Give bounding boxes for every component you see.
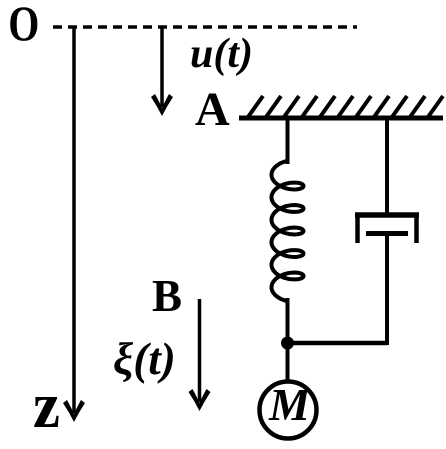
svg-text:z: z bbox=[33, 368, 60, 442]
dashed reference line bbox=[53, 25, 357, 29]
svg-text:u(t): u(t) bbox=[190, 31, 253, 77]
svg-text:M: M bbox=[268, 379, 312, 430]
junction node dot bbox=[281, 337, 294, 350]
damper cylinder left wall bbox=[355, 213, 360, 243]
wire junction to damper bbox=[288, 341, 388, 346]
wire ceiling to spring bbox=[286, 118, 290, 164]
wire ceiling to damper cylinder bbox=[385, 118, 389, 215]
z-axis arrowhead bbox=[63, 400, 85, 422]
svg-text:O: O bbox=[8, 0, 39, 51]
wire B arrow shaft bbox=[198, 299, 202, 402]
wire z-axis shaft bbox=[72, 27, 76, 413]
damper cylinder right wall bbox=[414, 213, 419, 243]
mass M circle bbox=[260, 382, 317, 439]
spring K coil bbox=[272, 161, 304, 301]
B arrowhead bbox=[189, 389, 211, 411]
svg-text:A: A bbox=[195, 83, 230, 136]
wire junction to mass bbox=[286, 343, 290, 383]
wire spring to junction bbox=[286, 298, 290, 343]
svg-text:B: B bbox=[152, 271, 182, 321]
damper cylinder top bbox=[355, 212, 419, 218]
ceiling fixed support line bbox=[239, 116, 443, 121]
wire piston rod to junction wire bbox=[385, 236, 389, 345]
wire u(t) arrow shaft bbox=[160, 27, 164, 107]
damper piston plate bbox=[366, 231, 408, 236]
ceiling hatching bbox=[248, 96, 443, 117]
u(t) arrowhead bbox=[151, 94, 173, 116]
svg-text:ξ(t): ξ(t) bbox=[113, 334, 176, 384]
